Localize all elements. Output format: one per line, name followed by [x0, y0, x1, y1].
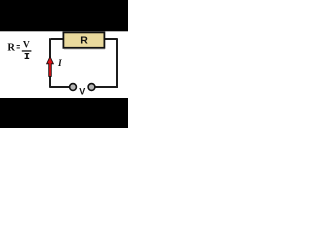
- svg-text:R: R: [7, 42, 15, 53]
- wire: top-left segment to resistor: [51, 38, 63, 40]
- resistor R box: [63, 32, 104, 47]
- current arrow (red): [47, 57, 54, 77]
- wire: top-right segment from resistor: [104, 38, 117, 40]
- terminal left (circle): [70, 84, 77, 91]
- terminal right (circle): [88, 84, 95, 91]
- svg-text:V: V: [79, 86, 85, 96]
- letterbox bar bottom: [0, 98, 128, 128]
- svg-text:I: I: [57, 59, 62, 69]
- wire: bottom-left segment to terminal: [49, 86, 69, 88]
- svg-text:R: R: [80, 35, 88, 47]
- letterbox bar top: [0, 0, 128, 31]
- background: [0, 0, 128, 128]
- wire: left vertical: [49, 38, 51, 87]
- svg-text:V: V: [23, 40, 30, 51]
- formula denominator I: [25, 53, 30, 54]
- formula equals sign: [17, 45, 20, 46]
- wire: bottom-right segment from terminal: [95, 86, 118, 88]
- formula fraction bar: [22, 50, 32, 51]
- resistor box shadow: [64, 49, 105, 50]
- wire: right vertical: [116, 38, 118, 88]
